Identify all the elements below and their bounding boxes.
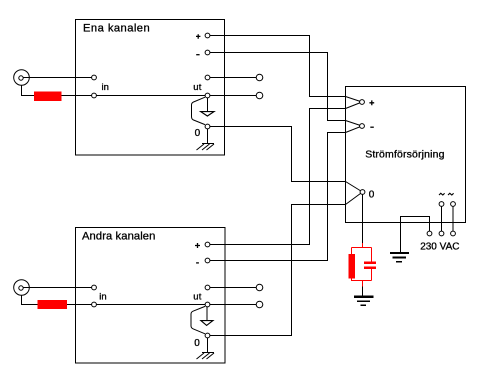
svg-text:Strömförsörjning: Strömförsörjning bbox=[365, 149, 444, 161]
svg-text:0: 0 bbox=[369, 189, 375, 200]
svg-text:0: 0 bbox=[195, 128, 201, 139]
svg-text:in: in bbox=[99, 292, 106, 303]
svg-text:0: 0 bbox=[194, 338, 200, 349]
svg-text:230 VAC: 230 VAC bbox=[420, 242, 459, 253]
svg-text:Andra kanalen: Andra kanalen bbox=[82, 231, 155, 243]
svg-text:ut: ut bbox=[193, 292, 201, 303]
svg-text:in: in bbox=[102, 82, 109, 93]
svg-text:Ena kanalen: Ena kanalen bbox=[83, 23, 150, 35]
svg-text:ut: ut bbox=[193, 82, 201, 93]
